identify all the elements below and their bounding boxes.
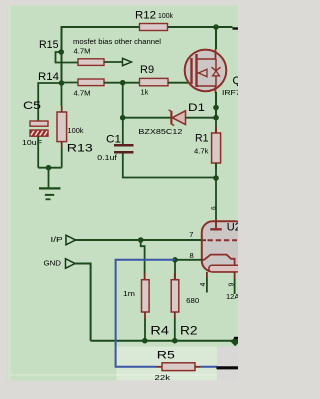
tube heater pin 4: [200, 272, 207, 293]
wire anode feed: [215, 178, 217, 219]
svg-text:C5: C5: [23, 100, 41, 112]
port to other channel arrow: [123, 58, 132, 65]
wire gnd port to rail: [75, 264, 91, 341]
resistor R14: [38, 71, 104, 98]
svg-text:4.7k: 4.7k: [194, 146, 209, 155]
wire cathode to node: [175, 259, 202, 261]
wire source down: [215, 92, 217, 118]
tube heater: [209, 265, 246, 272]
grey margin bottom: [0, 381, 238, 399]
wire C1 drop: [122, 118, 124, 144]
wire ground link: [38, 167, 62, 169]
svg-text:22k: 22k: [155, 373, 171, 382]
wire blue feedback: [116, 260, 175, 367]
selection highlight around R5: [117, 347, 218, 381]
diode D1 zener BZX85C12: [138, 102, 205, 136]
wire top rail: [62, 26, 233, 28]
node ground tap: [46, 165, 52, 171]
wire R14 left: [62, 82, 79, 84]
rail end diamond: [231, 337, 240, 346]
svg-text:R2: R2: [180, 326, 198, 338]
svg-text:0.1uf: 0.1uf: [97, 153, 118, 162]
svg-text:4.7M: 4.7M: [74, 88, 91, 97]
wire left vertical bus: [61, 26, 63, 83]
node cathode junction: [172, 257, 178, 263]
wire C1 bottom to R1 bottom: [123, 153, 216, 177]
resistor R2: [171, 260, 199, 338]
svg-text:BZX85C12: BZX85C12: [138, 127, 182, 136]
svg-text:I/P: I/P: [51, 235, 63, 244]
port I/P: [51, 235, 76, 245]
tube anode pin 6: [210, 206, 221, 229]
svg-text:R14: R14: [38, 71, 59, 83]
svg-text:R12: R12: [135, 9, 156, 21]
svg-text:10uF: 10uF: [22, 138, 42, 147]
svg-text:mosfet bias other channel: mosfet bias other channel: [73, 37, 161, 46]
node R4 tap: [138, 237, 144, 243]
svg-text:1m: 1m: [123, 289, 135, 298]
svg-text:1k: 1k: [141, 87, 149, 96]
wire R14 junction to C5: [38, 83, 61, 121]
svg-text:8: 8: [190, 251, 194, 260]
wire drain from top node: [215, 27, 217, 49]
svg-text:4.7M: 4.7M: [74, 47, 91, 56]
svg-text:IRF740: IRF740: [222, 88, 238, 97]
svg-text:100k: 100k: [68, 126, 84, 135]
node junction top at drain: [213, 24, 219, 30]
node R1 bottom: [213, 175, 219, 181]
resistor R12: [135, 9, 173, 30]
wire zener left: [123, 117, 171, 119]
wire blue R5 right: [201, 366, 218, 368]
node source: [213, 105, 219, 111]
node R15 tap: [58, 49, 64, 55]
wire C5 bottom: [37, 136, 39, 168]
wire R4 to rail: [144, 319, 146, 341]
ground: [39, 168, 61, 200]
grey margin left: [0, 0, 8, 399]
resistor R4: [123, 273, 170, 338]
node gate bus tap: [120, 80, 126, 86]
wire R1 to anode node: [215, 163, 217, 178]
wire black stub top right: [233, 27, 239, 29]
resistor R5: [155, 350, 201, 382]
wire black R5 out: [217, 366, 239, 369]
node zener tap: [120, 115, 126, 121]
grey area bottom-right outside sheet: [217, 347, 238, 399]
mosfet Q1: [185, 49, 250, 97]
wire ground rail: [91, 340, 232, 342]
wire R15 jog: [56, 52, 79, 63]
wire R9 to gate: [168, 82, 192, 84]
wire vertical zener bus: [122, 83, 124, 118]
wire R2 to rail: [174, 319, 176, 341]
svg-text:12AX7: 12AX7: [226, 292, 238, 301]
svg-text:R4: R4: [150, 326, 169, 338]
tube cathode pin 8: [190, 251, 235, 272]
svg-text:Q1: Q1: [233, 75, 239, 87]
svg-text:R9: R9: [140, 64, 154, 76]
wire R4 drop: [141, 240, 145, 273]
wire zener right: [186, 117, 217, 119]
capacitor C5: [22, 100, 48, 147]
port GND: [44, 258, 76, 268]
svg-text:R13: R13: [67, 142, 93, 154]
schematic sheet background: [8, 6, 239, 381]
tube U2 envelope: [202, 221, 249, 300]
wire input to grid pin 7: [76, 239, 202, 241]
resistor R13: [57, 106, 93, 154]
node R14 junction: [59, 80, 65, 86]
grey margin top: [0, 0, 238, 6]
node R4 rail: [142, 338, 148, 344]
svg-text:680: 680: [186, 296, 199, 305]
wire to R1: [215, 118, 217, 133]
tube heater pin 9: [228, 272, 235, 294]
sheet edge shade left: [8, 6, 11, 381]
node R2 rail: [172, 338, 178, 344]
resistor R15: [39, 39, 104, 65]
wire R13 bottom: [61, 148, 63, 168]
svg-text:4: 4: [200, 283, 207, 287]
svg-text:R5: R5: [157, 350, 175, 362]
svg-text:GND: GND: [44, 258, 62, 267]
resistor R1: [194, 127, 221, 169]
capacitor C1: [97, 134, 133, 162]
sheet edge line bottom: [11, 374, 218, 375]
tube grid pin 7: [189, 230, 237, 240]
svg-text:D1: D1: [188, 102, 205, 114]
svg-text:100k: 100k: [158, 11, 173, 20]
svg-text:R15: R15: [39, 39, 59, 51]
wire R14 to R9 node: [104, 82, 140, 84]
wire R13 top: [61, 83, 63, 106]
svg-text:U2: U2: [227, 222, 238, 234]
resistor R9: [140, 64, 169, 97]
svg-text:C1: C1: [106, 134, 121, 146]
wire R15 to port: [104, 61, 123, 63]
node zener to drain bus: [213, 115, 219, 121]
svg-text:R1: R1: [195, 132, 209, 144]
svg-text:7: 7: [189, 230, 193, 239]
svg-text:6: 6: [210, 206, 217, 210]
svg-text:9: 9: [228, 283, 235, 287]
